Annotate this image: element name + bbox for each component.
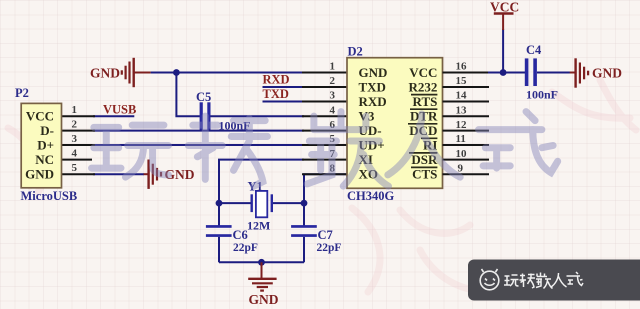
svg-text:4: 4 bbox=[72, 148, 78, 160]
wire VCC net pin16 to C4 bbox=[488, 72, 525, 74]
svg-text:GND: GND bbox=[359, 65, 388, 80]
svg-text:3: 3 bbox=[72, 133, 78, 145]
pin stub P2 pin2 bbox=[62, 130, 96, 132]
svg-text:NC: NC bbox=[35, 152, 54, 167]
svg-text:11: 11 bbox=[456, 133, 466, 145]
svg-text:VCC: VCC bbox=[409, 65, 437, 80]
svg-text:VCC: VCC bbox=[26, 109, 54, 124]
svg-text:C6: C6 bbox=[233, 228, 248, 242]
corner watermark dark box bbox=[468, 260, 640, 301]
wire C4 to GND bbox=[537, 72, 570, 74]
wire RXD net row2 bbox=[263, 86, 305, 88]
ground earth below crystal bbox=[248, 262, 279, 307]
svg-text:C5: C5 bbox=[196, 90, 211, 104]
svg-text:12M: 12M bbox=[247, 219, 270, 233]
pin stub chip pin2 bbox=[302, 86, 347, 88]
node junction bottom rail / earth bbox=[258, 259, 265, 266]
pin stub P2 pin4 (NC) bbox=[62, 159, 93, 161]
svg-text:15: 15 bbox=[456, 75, 468, 87]
svg-text:1: 1 bbox=[330, 61, 336, 73]
pin stub chip pin1 bbox=[302, 72, 347, 74]
wire crystal right bbox=[273, 202, 304, 204]
pink faint watermark stroke center-bottom bbox=[352, 208, 474, 292]
wire crystal left bbox=[219, 202, 251, 204]
capacitor C7 bbox=[291, 225, 317, 237]
corner text 玩 bbox=[504, 275, 519, 286]
ground GND top-left bbox=[90, 58, 151, 87]
node junction VCC bbox=[500, 69, 507, 76]
svg-text:13: 13 bbox=[456, 104, 468, 116]
chip left pin names bbox=[359, 65, 388, 182]
chip right pin numbers bbox=[456, 61, 468, 175]
pin stub P2 pin5 bbox=[62, 173, 96, 175]
svg-text:CH340G: CH340G bbox=[347, 189, 395, 203]
svg-text:1: 1 bbox=[72, 104, 78, 116]
svg-text:C7: C7 bbox=[318, 228, 333, 242]
pin stub chip pin6 bbox=[302, 130, 347, 132]
wire P2 GND row8 bbox=[93, 173, 144, 175]
wire D- net row5 bbox=[93, 130, 304, 132]
svg-text:MicroUSB: MicroUSB bbox=[21, 189, 78, 203]
pin stub P2 pin3 bbox=[62, 144, 96, 146]
svg-text:100nF: 100nF bbox=[526, 88, 558, 102]
chip right pin names bbox=[409, 65, 438, 182]
corner text 嵌 bbox=[536, 273, 553, 289]
svg-text:P2: P2 bbox=[15, 86, 29, 100]
corner text 式 bbox=[567, 272, 584, 286]
wire VCC vertical bbox=[502, 29, 504, 73]
ground GND right of C4 bbox=[570, 58, 623, 87]
svg-text:CTS: CTS bbox=[412, 167, 437, 182]
svg-text:RTS: RTS bbox=[413, 94, 438, 109]
connector P2 body bbox=[21, 103, 61, 187]
svg-text:GND: GND bbox=[25, 167, 54, 182]
svg-text:RXD: RXD bbox=[263, 73, 290, 87]
svg-text:D+: D+ bbox=[37, 137, 54, 152]
wire GND rail row1 bbox=[151, 72, 304, 74]
svg-text:2: 2 bbox=[330, 75, 336, 87]
active-low overlines RTS DTR DCD RI DSR CTS bbox=[408, 95, 437, 168]
svg-text:VCC: VCC bbox=[490, 0, 519, 14]
wire C7 bottom bbox=[303, 237, 305, 262]
wire D+ net row6 bbox=[93, 144, 304, 146]
wire XI net row7 with corner down bbox=[219, 160, 304, 227]
svg-text:R232: R232 bbox=[409, 79, 438, 94]
svg-text:C4: C4 bbox=[526, 43, 542, 57]
svg-text:VUSB: VUSB bbox=[103, 102, 136, 116]
watermark char 式 bbox=[479, 112, 558, 173]
wire VUSB net row4 bbox=[93, 115, 134, 117]
svg-text:GND: GND bbox=[90, 66, 120, 81]
capacitor C6 bbox=[206, 225, 232, 237]
svg-text:10: 10 bbox=[456, 148, 468, 160]
svg-text:4: 4 bbox=[330, 104, 336, 116]
svg-text:16: 16 bbox=[456, 61, 468, 73]
wire bottom rail bbox=[219, 261, 304, 263]
capacitor C5 bbox=[200, 102, 211, 130]
watermark char 入 bbox=[388, 114, 460, 177]
pin stub chip pin7 bbox=[302, 159, 347, 161]
svg-text:14: 14 bbox=[456, 90, 468, 102]
svg-text:GND: GND bbox=[249, 292, 279, 307]
svg-text:RXD: RXD bbox=[359, 94, 387, 109]
capacitor C4 bbox=[525, 58, 537, 86]
svg-text:D-: D- bbox=[40, 123, 54, 138]
corner text 入 bbox=[551, 273, 567, 287]
chip left pin numbers bbox=[330, 61, 336, 175]
svg-text:3: 3 bbox=[330, 90, 336, 102]
power VCC symbol bbox=[490, 0, 519, 30]
pin stub chip pin8 bbox=[302, 173, 347, 175]
svg-text:2: 2 bbox=[72, 119, 78, 131]
svg-text:TXD: TXD bbox=[359, 79, 386, 94]
crystal Y1 bbox=[252, 191, 272, 217]
svg-text:D2: D2 bbox=[348, 45, 363, 59]
wire TXD net row3 bbox=[263, 101, 305, 103]
corner logo circle bbox=[480, 269, 499, 290]
pin stub P2 pin1 bbox=[62, 115, 96, 117]
svg-text:22pF: 22pF bbox=[317, 242, 342, 254]
wire C6 bottom bbox=[218, 237, 220, 262]
watermark char 转 bbox=[188, 116, 267, 186]
ground GND at P2 pin5 bbox=[144, 160, 195, 189]
pin stub chip pin4 bbox=[302, 115, 347, 117]
node junction XO/crystal bbox=[301, 200, 308, 207]
svg-text:22pF: 22pF bbox=[233, 242, 258, 254]
wire C5 branch from junction bbox=[176, 73, 200, 117]
node junction XI/crystal bbox=[216, 200, 223, 207]
wire C5 to chip pin4 (V3) row4 bbox=[211, 115, 305, 117]
node junction GND/C5 bbox=[173, 69, 180, 76]
svg-text:5: 5 bbox=[72, 162, 78, 174]
svg-text:TXD: TXD bbox=[263, 87, 289, 101]
svg-text:12: 12 bbox=[456, 119, 468, 131]
pink faint watermark stroke left bbox=[8, 125, 48, 192]
svg-text:GND: GND bbox=[592, 66, 622, 81]
watermark char 玩 bbox=[92, 125, 169, 177]
pin stub chip pin5 bbox=[302, 144, 347, 146]
IC U1 CH340G body (D2) bbox=[347, 58, 443, 189]
wire XO net row8 + vertical to crystal bbox=[304, 174, 347, 226]
chip right pin stubs 16..9 bbox=[443, 73, 490, 175]
pin stub chip pin3 bbox=[302, 101, 347, 103]
pink faint watermark stroke right bbox=[552, 80, 636, 130]
corner text 转 bbox=[520, 274, 536, 289]
watermark char 嵌 bbox=[307, 112, 388, 187]
